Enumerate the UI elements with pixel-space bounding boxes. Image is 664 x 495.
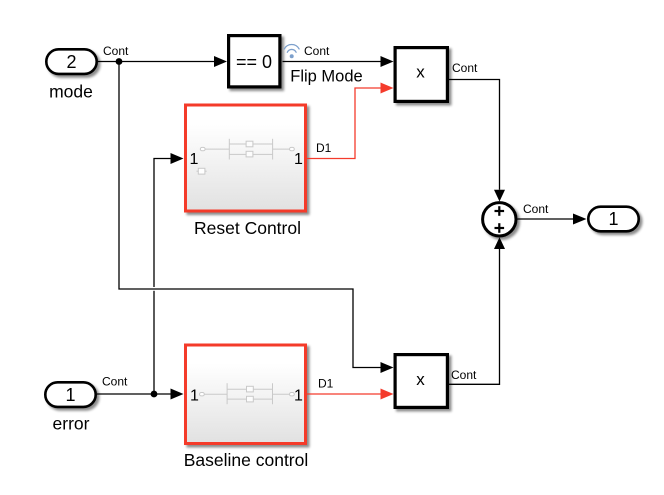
svg-text:1: 1	[294, 388, 303, 405]
red wire Baseline D1 to bottom product input 2	[307, 389, 394, 400]
wireless logging icon	[284, 44, 299, 58]
svg-text:Reset Control: Reset Control	[194, 218, 301, 238]
svg-text:error: error	[53, 414, 90, 434]
wire top product to sum (down)	[449, 80, 505, 202]
svg-text:x: x	[416, 370, 425, 389]
wire mode to ==0	[98, 56, 227, 67]
wire bottom product to sum (up)	[449, 237, 505, 384]
subsystem Reset Control	[186, 105, 306, 211]
svg-text:Cont: Cont	[103, 44, 129, 58]
svg-text:Baseline control: Baseline control	[184, 450, 309, 470]
junction node at error branch	[151, 391, 158, 398]
junction node at mode branch	[116, 58, 123, 65]
svg-text:1: 1	[65, 385, 75, 405]
subsystem Baseline control	[186, 345, 306, 444]
sum block	[483, 203, 516, 236]
product block X (top)	[395, 48, 447, 102]
thumbnail contents	[200, 383, 295, 404]
thumbnail contents	[197, 139, 295, 174]
svg-text:mode: mode	[49, 82, 93, 102]
outport 1	[588, 207, 638, 232]
svg-text:Cont: Cont	[451, 368, 477, 382]
svg-text:D1: D1	[316, 141, 332, 155]
svg-text:Flip Mode: Flip Mode	[290, 68, 362, 86]
svg-text:1: 1	[190, 151, 199, 168]
svg-text:2: 2	[66, 52, 76, 72]
svg-text:D1: D1	[318, 377, 334, 391]
product block X (bottom)	[395, 355, 447, 408]
wire error junction up to Reset Control input	[154, 153, 184, 394]
svg-text:Cont: Cont	[102, 375, 128, 389]
svg-text:1: 1	[608, 209, 618, 229]
wire sum to outport	[518, 214, 587, 225]
red wire Reset Control D1 to top product input 2	[307, 83, 394, 159]
block ==0 Compare To Zero (Flip Mode)	[229, 36, 280, 87]
wire mode branch to bottom product input 1	[119, 62, 394, 374]
svg-text:Cont: Cont	[523, 202, 549, 216]
svg-text:Cont: Cont	[304, 44, 330, 58]
svg-text:1: 1	[190, 388, 199, 405]
svg-text:x: x	[416, 63, 425, 82]
wire error to Baseline control	[97, 389, 184, 400]
inport 2 (mode)	[46, 49, 96, 74]
svg-text:Cont: Cont	[452, 61, 478, 75]
svg-text:== 0: == 0	[236, 52, 272, 72]
svg-text:1: 1	[294, 151, 303, 168]
wire ==0 to top product input 1	[283, 56, 394, 67]
inport 1 (error)	[45, 382, 95, 407]
